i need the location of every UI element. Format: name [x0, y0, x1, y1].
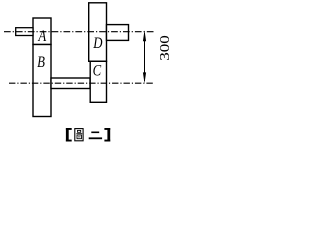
- caption character 二: [89, 132, 102, 140]
- dimension line 300: [143, 30, 146, 83]
- connecting shaft bar between B and C: [51, 78, 90, 89]
- block C (gear C on right shaft): [90, 61, 106, 102]
- block A (gear A on left shaft): [33, 18, 51, 45]
- caption character 圖: [75, 129, 83, 141]
- svg-text:D: D: [92, 35, 103, 53]
- right shaft stub: [107, 25, 129, 41]
- svg-text:300: 300: [158, 35, 173, 61]
- left shaft stub: [16, 28, 33, 36]
- block D (gear D on right shaft): [89, 3, 107, 62]
- svg-text:C: C: [93, 62, 102, 80]
- lower centerline (axis of shaft 2): [9, 82, 153, 84]
- block B (gear B on left shaft): [33, 45, 51, 117]
- svg-text:B: B: [37, 54, 45, 72]
- svg-text:A: A: [38, 28, 47, 46]
- upper centerline (axis of shaft 1): [4, 31, 154, 33]
- caption bracket 【: [66, 128, 72, 142]
- caption bracket 】: [104, 128, 110, 142]
